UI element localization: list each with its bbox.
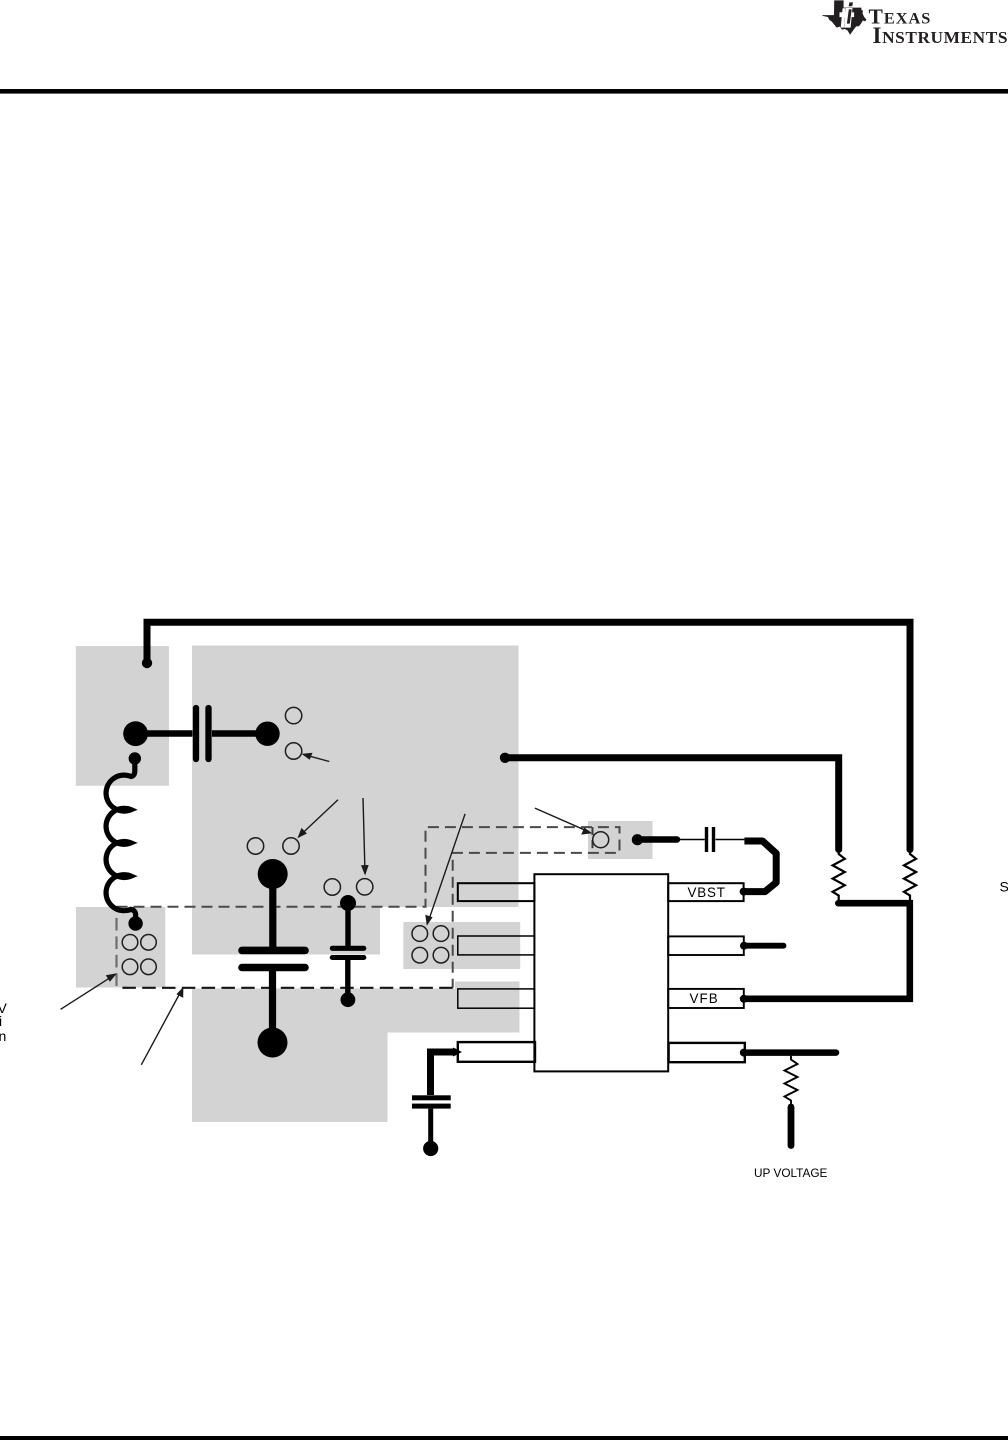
via cluster B xyxy=(412,926,428,942)
arrow to dashed boundary xyxy=(141,993,180,1065)
arrow to via cluster B xyxy=(429,814,465,920)
arrow to via near C2 xyxy=(363,798,365,869)
wire pin8 to right xyxy=(744,1049,836,1056)
pin mid right xyxy=(668,936,744,955)
wire Cin right lead xyxy=(212,730,262,737)
pin 2 left xyxy=(458,936,535,955)
resistor R1 xyxy=(833,851,845,902)
via pair above Cout xyxy=(247,838,263,854)
wire thick boot stub xyxy=(640,836,677,843)
via pair near Cin xyxy=(285,707,301,723)
pad dot Cin left xyxy=(123,721,148,746)
pad dot Cout bottom xyxy=(258,1028,288,1058)
via SW xyxy=(593,832,609,848)
svg-text:UP VOLTAGE: UP VOLTAGE xyxy=(754,1166,828,1180)
wire pin4 left elbow xyxy=(431,1052,457,1095)
gray pour bottom (output gnd) upper part xyxy=(192,989,520,1033)
gray strip pin3 row xyxy=(455,982,520,1033)
pin 4 left xyxy=(458,1042,535,1062)
wire Cout stem bottom xyxy=(269,970,276,1032)
header rule xyxy=(0,89,1008,94)
wire SW node to R1 xyxy=(505,758,839,850)
arrow to SW via xyxy=(535,808,586,831)
via pair near C2 xyxy=(324,879,340,895)
dashed polygon xyxy=(117,827,620,988)
gray pour left via island xyxy=(76,907,165,988)
pin VFB right xyxy=(668,989,744,1008)
wire stub xyxy=(744,943,784,949)
capacitor Cin plates xyxy=(193,708,199,759)
gray pour main (power/gnd plane) xyxy=(192,646,519,908)
inductor L1 xyxy=(106,759,136,922)
TI logo Texas map xyxy=(822,0,866,34)
pad dot C3 bottom xyxy=(423,1141,438,1156)
wire thin boot cap right lead xyxy=(716,839,745,841)
svg-text:n: n xyxy=(0,1028,6,1044)
arrow to via near Cin xyxy=(306,755,329,761)
node dot top-left xyxy=(142,658,152,668)
node dot L top xyxy=(129,752,141,764)
pin 8 right bottom xyxy=(669,1043,745,1062)
dashed bottom/left edges xyxy=(117,987,453,989)
pad dot Cout top xyxy=(258,859,288,889)
pin 3 left xyxy=(458,989,535,1008)
node dot pin8 xyxy=(740,1049,748,1057)
node dot L bottom xyxy=(128,916,142,930)
capacitor Cout plates xyxy=(242,947,305,955)
node dot mid pin xyxy=(740,942,748,950)
via cluster A xyxy=(122,935,138,951)
wire thin boot cap left lead xyxy=(677,839,705,841)
resistor R3 xyxy=(785,1056,798,1104)
capacitor Cboot plates xyxy=(705,827,708,852)
wire Cin left lead xyxy=(136,730,193,737)
node dot SW wire left xyxy=(500,753,510,763)
arrow tip pin4 wire xyxy=(453,1048,462,1057)
arrow to via above Cout xyxy=(301,800,339,835)
svg-text:VFB: VFB xyxy=(690,991,719,1006)
pad dot C2 bottom xyxy=(341,992,356,1007)
node dot VBST pin xyxy=(740,888,748,896)
pin 1 left xyxy=(458,883,535,901)
wire C2 stem top xyxy=(345,903,350,947)
gray pour SW via square xyxy=(588,821,653,859)
pad dot boot xyxy=(632,834,643,845)
wire C3 stem bottom xyxy=(428,1109,433,1142)
wire Cout stem top xyxy=(269,875,276,948)
wire VBST elbow xyxy=(744,841,776,892)
gray pour bottom deep part xyxy=(192,1032,388,1122)
wire C2 stem bottom xyxy=(345,960,350,994)
svg-text:VBST: VBST xyxy=(688,885,726,900)
terminal stub R3 bottom xyxy=(788,1107,795,1146)
pad dot Cin right xyxy=(255,722,279,746)
dashed via box left edge xyxy=(592,827,594,853)
wire input top (Vin to R2) xyxy=(147,622,910,849)
svg-text:S: S xyxy=(1000,878,1008,894)
IC body U1 xyxy=(534,874,668,1071)
gray pour mid via square xyxy=(403,922,520,969)
arrow to via cluster A xyxy=(61,977,112,1010)
capacitor C2 plates xyxy=(332,946,364,951)
pad dot C2 top xyxy=(340,895,356,911)
gray pour main lower lobe xyxy=(192,907,380,955)
wire feedback (R bottoms to VFB pin) xyxy=(744,903,910,999)
resistor R2 xyxy=(904,851,916,902)
svg-text:i: i xyxy=(0,1013,2,1029)
pin VBST right xyxy=(668,883,743,901)
gray pour top-left (Vin island) xyxy=(76,646,169,786)
node dot VFB pin xyxy=(740,995,748,1003)
footer rule xyxy=(0,1436,1008,1440)
capacitor C3 plates xyxy=(412,1095,451,1100)
